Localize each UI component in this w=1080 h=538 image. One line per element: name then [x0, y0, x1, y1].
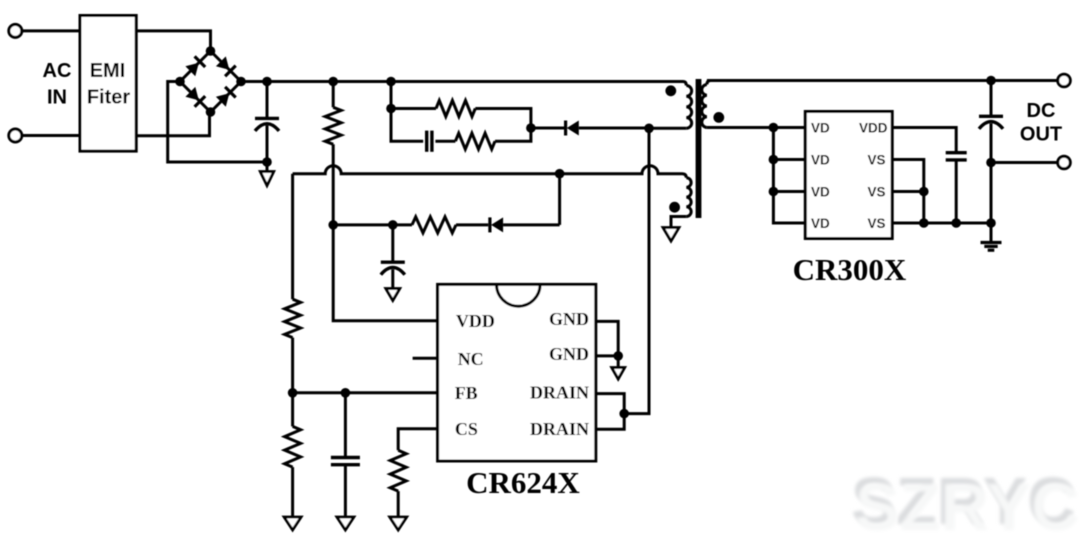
svg-text:VDD: VDD: [859, 120, 888, 135]
wire: [955, 160, 958, 223]
wire: [990, 163, 993, 224]
node GND: [613, 351, 623, 361]
svg-text:VS: VS: [867, 152, 885, 167]
node: [328, 77, 338, 87]
capacitor C4 FB: [344, 393, 347, 458]
wire HV rail: [241, 80, 683, 83]
svg-text:EMI: EMI: [90, 60, 126, 82]
node: [262, 77, 272, 87]
resistor R5 upper FB: [291, 174, 294, 300]
chip notch: [497, 284, 541, 306]
pin stub VS2: [892, 190, 924, 193]
wire: [671, 217, 686, 228]
resistor R4 vdd: [412, 217, 456, 233]
wire: [22, 29, 80, 32]
transformer primary winding: [683, 82, 686, 86]
svg-text:VD: VD: [811, 152, 830, 167]
bridge diode lower-right: [216, 87, 236, 107]
node snubber junction: [526, 123, 536, 133]
node: [769, 123, 779, 133]
node bulk cap bottom: [262, 157, 272, 167]
svg-text:DRAIN: DRAIN: [530, 383, 589, 403]
op-chip U2 CR300X: [805, 112, 892, 239]
wire CS: [398, 429, 437, 451]
wire: [168, 82, 267, 163]
resistor R3 snubber: [435, 140, 455, 143]
op-chip U1 CR624X: [438, 284, 596, 461]
svg-text:OUT: OUT: [1020, 123, 1062, 145]
node bridge right: [236, 77, 246, 87]
ground U1: [617, 356, 620, 368]
wire: [391, 109, 423, 142]
node bridge top: [206, 46, 216, 56]
pin stub VD3: [773, 190, 805, 193]
resistor R7 CS: [390, 450, 406, 491]
pin stub NC: [413, 357, 438, 360]
wire: [558, 174, 561, 225]
bridge diode upper-right: [216, 56, 236, 76]
node snubber left: [386, 104, 396, 114]
node: [986, 218, 996, 228]
node aux junction: [555, 169, 565, 179]
node bridge left: [175, 77, 185, 87]
svg-text:GND: GND: [549, 344, 589, 364]
terminal DC out bottom: [1058, 156, 1071, 169]
wire: [991, 161, 1058, 164]
wire: [136, 31, 210, 51]
bridge diode lower-left: [185, 87, 205, 107]
svg-text:DRAIN: DRAIN: [530, 419, 589, 439]
ground R6: [284, 517, 301, 530]
wire: [22, 134, 80, 137]
ground R7: [390, 517, 407, 530]
wire DRAIN pins: [596, 394, 624, 430]
node: [388, 220, 398, 230]
svg-text:NC: NC: [458, 349, 484, 369]
wire: [503, 223, 559, 226]
svg-text:SZRYC: SZRYC: [855, 470, 1080, 538]
node: [386, 77, 396, 87]
wire: [649, 127, 686, 130]
node: [986, 76, 996, 86]
terminal DC out top: [1058, 74, 1071, 87]
svg-text:GND: GND: [549, 309, 589, 329]
aux dot: [669, 202, 680, 213]
wire VDD out: [892, 128, 956, 152]
primary dot: [665, 85, 676, 96]
node drain: [644, 124, 654, 134]
wire VD bus: [773, 128, 805, 224]
node: [341, 388, 351, 398]
ground C3: [386, 289, 400, 301]
node: [328, 220, 338, 230]
wire VDD feed: [333, 225, 437, 321]
capacitor bulk C1: [266, 82, 269, 118]
wire FB: [293, 391, 438, 394]
resistor R2 snubber: [391, 107, 436, 110]
node FB: [288, 388, 298, 398]
ground secondary earth: [990, 223, 993, 242]
svg-text:AC: AC: [43, 60, 72, 82]
svg-text:VDD: VDD: [456, 311, 495, 331]
EMI filter block: [80, 16, 136, 152]
node: [919, 218, 929, 228]
wire aux feed: [293, 166, 682, 174]
svg-text:CR300X: CR300X: [793, 252, 907, 287]
resistor R6 lower FB: [291, 393, 294, 427]
transformer aux winding: [682, 174, 686, 178]
svg-text:Fiter: Fiter: [87, 86, 131, 108]
secondary dot: [713, 112, 724, 123]
svg-text:IN: IN: [47, 86, 67, 108]
wire: [136, 112, 209, 136]
svg-text:DC: DC: [1027, 100, 1056, 122]
wire VS bus: [892, 160, 924, 224]
node: [769, 187, 779, 197]
wire: [390, 82, 393, 109]
bridge diode upper-left: [185, 56, 205, 76]
svg-text:VD: VD: [811, 184, 830, 199]
capacitor C6 output: [990, 81, 993, 116]
terminal AC input top: [9, 24, 22, 37]
node: [951, 218, 961, 228]
diode D2 vdd: [488, 217, 491, 232]
node DRAIN: [619, 409, 629, 419]
svg-text:VD: VD: [811, 216, 830, 231]
pin stub VD2: [773, 158, 805, 161]
terminal AC input bottom: [9, 129, 22, 142]
wire drain riser: [624, 128, 649, 413]
svg-text:CR624X: CR624X: [466, 465, 580, 500]
ground C4: [337, 517, 354, 530]
transformer core: [696, 79, 702, 218]
node: [986, 158, 996, 168]
wire secondary bottom: [707, 126, 805, 129]
node: [769, 155, 779, 165]
svg-text:VS: VS: [867, 184, 885, 199]
wire: [333, 223, 412, 226]
svg-text:VS: VS: [867, 216, 885, 231]
resistor R1: [332, 82, 335, 108]
bridge rectifier BR1: [180, 51, 241, 112]
svg-text:VD: VD: [811, 120, 830, 135]
capacitor C2 snubber: [425, 131, 428, 152]
transformer secondary winding: [707, 81, 711, 85]
capacitor C3: [391, 225, 394, 261]
wire: [456, 223, 488, 226]
capacitor C5: [946, 151, 967, 154]
wire: [579, 127, 649, 130]
diode D1 clamp: [564, 121, 567, 136]
node bridge bottom: [206, 107, 216, 117]
wire GND pins: [596, 321, 618, 356]
wire secondary top rail: [707, 79, 1058, 82]
svg-text:CS: CS: [455, 419, 478, 439]
watermark SZRYC: [851, 464, 1080, 538]
svg-text:FB: FB: [455, 383, 478, 403]
wire: [531, 127, 564, 130]
ground aux: [663, 228, 679, 242]
node: [919, 187, 929, 197]
wire VS out: [892, 222, 991, 225]
ground primary: [266, 162, 269, 172]
